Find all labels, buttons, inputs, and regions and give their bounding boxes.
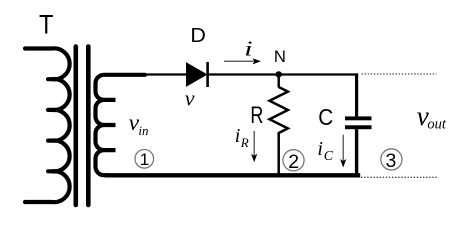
resistor R zigzag — [270, 87, 288, 175]
svg-text:1: 1 — [140, 150, 149, 169]
svg-text:in: in — [138, 123, 148, 138]
bottom dotted output line — [361, 176, 438, 178]
transformer secondary winding (right coil) with top lead — [96, 75, 146, 175]
svg-text:R: R — [240, 135, 249, 150]
transformer core line (right) — [86, 47, 91, 206]
svg-text:C: C — [318, 104, 333, 130]
svg-text:N: N — [274, 48, 286, 66]
circled node 2 — [283, 150, 304, 171]
svg-text:i: i — [244, 36, 253, 60]
transformer primary winding (left coil) — [25, 48, 70, 202]
diode D — [187, 63, 207, 86]
svg-text:T: T — [39, 9, 54, 39]
i_R arrow — [253, 131, 255, 156]
svg-text:i: i — [317, 138, 323, 160]
wire diode to node N to cap corner — [208, 73, 358, 75]
circled node 1 — [135, 150, 154, 169]
i_C arrow — [342, 135, 344, 161]
capacitor branch: top wire down — [355, 73, 358, 116]
svg-text:i: i — [235, 125, 241, 147]
circled node 3 — [381, 149, 402, 170]
svg-text:R: R — [250, 102, 263, 129]
svg-text:3: 3 — [385, 150, 396, 172]
svg-text:out: out — [427, 116, 447, 132]
top dotted output line — [362, 73, 437, 75]
capacitor C top plate — [345, 116, 372, 120]
wire node N down to resistor — [278, 74, 280, 87]
transformer core line (left) — [74, 47, 79, 206]
svg-text:D: D — [190, 24, 206, 47]
capacitor bottom lead — [355, 129, 358, 175]
node N junction dot — [276, 71, 282, 77]
current arrow i — [224, 60, 255, 62]
svg-text:2: 2 — [288, 151, 299, 173]
top wire thin: lead to diode anode — [143, 73, 188, 75]
bottom wire (node 0 rail) — [107, 173, 358, 177]
svg-text:C: C — [324, 149, 334, 164]
capacitor C bottom plate — [345, 125, 372, 129]
svg-text:v: v — [185, 86, 195, 111]
